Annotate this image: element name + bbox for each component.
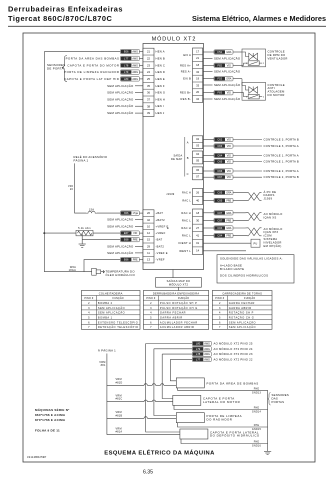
svg-text:HEN A: HEN A [156, 50, 165, 54]
diagram frame [23, 33, 315, 462]
svg-text:ANTI: ANTI [268, 86, 275, 90]
svg-text:2: 2 [263, 97, 264, 99]
svg-text:DERRUBADEIRA ENFEIXADEIRA: DERRUBADEIRA ENFEIXADEIRA [153, 291, 199, 295]
svg-text:PINO #: PINO # [84, 297, 94, 300]
svg-text:ESQUEMA ELÉTRICO DA MÁQUINA: ESQUEMA ELÉTRICO DA MÁQUINA [104, 448, 215, 456]
svg-text:42: 42 [147, 218, 150, 222]
svg-text:VIO: VIO [227, 139, 231, 142]
wire label C64 VIO C64 VIO [214, 153, 233, 157]
wire pair out L [260, 235, 262, 237]
table COLHEITADEIRA [81, 291, 140, 330]
svg-text:VIO: VIO [227, 145, 231, 148]
brace door sensors [62, 56, 67, 82]
svg-text:AWG: AWG [132, 64, 138, 67]
svg-text:RES A-: RES A- [181, 70, 191, 74]
svg-text:L78: L78 [196, 352, 201, 356]
wire label C63 VIO C63 VIO [214, 144, 233, 148]
wire signal row L79 [154, 348, 192, 350]
svg-text:2: 2 [263, 63, 264, 65]
svg-text:C05: C05 [217, 199, 222, 203]
svg-text:SEM APLICAÇÃO: SEM APLICAÇÃO [214, 82, 241, 87]
svg-text:BOMBA 2: BOMBA 2 [98, 301, 113, 305]
svg-text:-VREF: -VREF [156, 258, 165, 262]
wire label C04 GRA C04 GRA [214, 226, 233, 230]
svg-text:SEM APLICAÇÃO: SEM APLICAÇÃO [214, 55, 241, 60]
svg-text:5.1k ohm: 5.1k ohm [78, 226, 91, 230]
svg-text:L80: L80 [124, 77, 129, 81]
wire stub [135, 245, 143, 247]
wire signal to switch 3 [154, 349, 176, 416]
wire IDENT H [203, 242, 251, 244]
svg-text:-BAT2: -BAT2 [156, 244, 165, 248]
wire CAN H to pair [233, 227, 249, 229]
svg-text:PU: PU [253, 241, 257, 245]
wire CAN L to pair [233, 200, 249, 202]
valve solenoid symbol 1 [242, 52, 258, 60]
svg-text:VIO: VIO [227, 176, 231, 179]
svg-text:07: 07 [196, 175, 199, 179]
wire label C07 PRE C07 PRE [214, 218, 233, 222]
svg-text:11: 11 [147, 251, 150, 255]
svg-text:ACUMULADOR ABRIR: ACUMULADOR ABRIR [160, 325, 194, 329]
wire label C07 GRA C07 GRA [214, 211, 233, 215]
svg-text:L78: L78 [124, 63, 129, 67]
ground [264, 451, 271, 454]
svg-text:06: 06 [196, 168, 199, 172]
svg-text:DO DEPÓSITO HIDRÁULICO: DO DEPÓSITO HIDRÁULICO [210, 433, 260, 438]
svg-text:CONTROLE: CONTROLE [268, 83, 285, 87]
valve box 2 [242, 82, 266, 100]
svg-text:PORTA DE LIMPEZA RADIADOR: PORTA DE LIMPEZA RADIADOR [64, 70, 119, 74]
svg-text:-BAT: -BAT [156, 238, 163, 242]
wire stub [203, 84, 213, 86]
wire to pin 15 [139, 239, 143, 241]
svg-text:05: 05 [196, 159, 199, 163]
svg-text:B: B [187, 156, 189, 160]
svg-text:RES B+: RES B+ [180, 91, 191, 95]
svg-text:CONTROLE 2, PORTA B: CONTROLE 2, PORTA B [264, 175, 300, 179]
svg-text:EI6 A: EI6 A [183, 53, 191, 57]
svg-text:FHE: FHE [254, 441, 260, 444]
svg-text:SISTEMA: SISTEMA [264, 237, 278, 241]
wire MAP out [203, 176, 214, 178]
connector CAN1 pins 26 40 [193, 189, 203, 205]
svg-text:RAC L: RAC L [182, 218, 191, 222]
wire stub [135, 252, 143, 254]
wire [107, 434, 180, 436]
wire module to saidas map box [172, 270, 174, 278]
svg-text:C65: C65 [217, 160, 222, 164]
svg-text:CONTROLE 1, PORTA A: CONTROLE 1, PORTA A [264, 154, 299, 158]
wire stub [135, 85, 143, 87]
svg-text:13: 13 [147, 258, 150, 262]
switch S4 CAPOTA E PORTA LATERAL DO DEPOSITO [180, 429, 208, 439]
svg-text:GARRA FECHAR: GARRA FECHAR [229, 301, 255, 305]
svg-text:RAC H: RAC H [181, 211, 191, 215]
wire label C66 VIO C66 VIO [214, 169, 233, 173]
wire label C62 VIO C62 VIO [214, 137, 233, 141]
svg-text:HEN F: HEN F [156, 84, 165, 88]
svg-text:SEM APLICAÇÃO: SEM APLICAÇÃO [107, 223, 134, 228]
wire label F83 VIO F83 VIO [214, 91, 233, 95]
svg-text:12: 12 [147, 231, 150, 235]
svg-text:C04: C04 [217, 234, 222, 238]
svg-text:PRE: PRE [133, 239, 138, 242]
svg-text:34: 34 [196, 97, 199, 101]
svg-text:17: 17 [196, 49, 199, 53]
svg-text:SOLENOIDE DAS VÁLVULAS LIGAD: SOLENOIDE DAS VÁLVULAS LIGADOS A: [220, 257, 283, 261]
svg-text:L80: L80 [196, 342, 201, 346]
wire to pin 12 [139, 232, 143, 234]
svg-text:CONTROLE 3, PORTA A: CONTROLE 3, PORTA A [264, 144, 299, 148]
wire [147, 384, 152, 386]
svg-text:26: 26 [147, 211, 150, 215]
svg-text:22: 22 [147, 56, 150, 60]
svg-text:Sistema Elétrico, Alarmes e Me: Sistema Elétrico, Alarmes e Medidores [192, 14, 326, 23]
svg-text:VIO: VIO [227, 161, 231, 164]
wire stub [203, 57, 213, 59]
svg-text:PRE: PRE [226, 219, 231, 222]
svg-text:03: 03 [196, 143, 199, 147]
svg-text:VENTILADOR: VENTILADOR [268, 56, 288, 60]
svg-text:L77: L77 [196, 357, 201, 361]
svg-text:HEN E: HEN E [156, 77, 165, 81]
wire [147, 417, 176, 419]
wire CAN H [203, 192, 214, 194]
svg-text:PINO #: PINO # [146, 297, 156, 300]
svg-text:HEN H: HEN H [156, 97, 166, 101]
wire signal row L78 [162, 353, 192, 355]
svg-text:J1939: J1939 [166, 192, 175, 196]
svg-text:20: 20 [196, 90, 199, 94]
svg-text:HEN C: HEN C [156, 63, 166, 67]
wire pair out H [260, 192, 262, 194]
svg-text:C07: C07 [217, 211, 222, 215]
svg-text:40: 40 [196, 199, 199, 203]
wire label C05 PRE C05 PRE [214, 198, 233, 202]
svg-text:GRA: GRA [226, 51, 232, 54]
MAP bracket line [184, 137, 186, 177]
svg-text:GARRA FECHAR: GARRA FECHAR [160, 311, 186, 315]
svg-text:SEM APLICAÇÃO: SEM APLICAÇÃO [214, 69, 241, 74]
wire label C05 GRA C05 GRA [214, 190, 233, 194]
svg-text:24: 24 [147, 70, 150, 74]
svg-text:#81B: #81B [116, 414, 123, 417]
svg-text:L79: L79 [124, 70, 129, 74]
wire to resistor 2 [233, 92, 242, 94]
wire label C04 PRE C04 PRE [214, 233, 233, 237]
wire CAN H to pair [233, 212, 249, 214]
svg-text:SEM APLICAÇÃO: SEM APLICAÇÃO [107, 110, 134, 115]
svg-text:(COM: (COM [264, 234, 273, 238]
table DERRUBADEIRA ENFEIXADEIRA [143, 291, 208, 330]
svg-text:41: 41 [196, 234, 199, 238]
svg-text:DO MOTOR: DO MOTOR [268, 93, 285, 97]
connector CAN2 pins [193, 209, 203, 254]
svg-text:AWG: AWG [204, 358, 210, 361]
svg-text:870*1766 E ACIMA: 870*1766 E ACIMA [35, 418, 66, 422]
svg-text:HEN G: HEN G [156, 91, 166, 95]
svg-text:10: 10 [147, 224, 150, 228]
wire [164, 384, 177, 386]
svg-text:FUNÇÃO: FUNÇÃO [244, 297, 255, 300]
wire to valve 1 [233, 51, 242, 53]
label SENSORES DAS PORTAS [268, 393, 271, 406]
twisted pair [249, 228, 260, 236]
connector P3 pins 17-34 [193, 48, 203, 102]
svg-text:RAC L: RAC L [182, 200, 191, 203]
svg-text:FHE: FHE [254, 424, 260, 427]
wire E06 to pin 21 [139, 51, 143, 53]
sensor temperatura do oleo hidraulico [92, 268, 105, 275]
twisted pair [249, 213, 260, 221]
svg-text:39: 39 [147, 111, 150, 115]
svg-text:C: C [187, 172, 189, 176]
svg-text:32: 32 [196, 70, 199, 74]
svg-text:#81: #81 [101, 364, 106, 367]
wire pair out H [260, 212, 262, 214]
svg-text:GARRA ABRIR: GARRA ABRIR [229, 306, 252, 310]
wire label L79 AWG L79 AWG [192, 347, 211, 351]
wire label L78 AWG L78 AWG [192, 352, 211, 356]
connector P2 power pins [143, 210, 154, 263]
svg-text:SEM APLICAÇÃO: SEM APLICAÇÃO [107, 83, 134, 88]
svg-text:DADOS: DADOS [264, 193, 275, 197]
svg-text:ATOLAGEM: ATOLAGEM [268, 90, 285, 94]
wire stub [203, 71, 213, 73]
wire stub [135, 105, 143, 107]
svg-text:AWG: AWG [204, 348, 210, 351]
svg-text:1: 1 [246, 63, 247, 65]
svg-text:HEN I: HEN I [156, 104, 164, 108]
svg-text:27: 27 [196, 226, 199, 230]
svg-text:HEN B: HEN B [156, 56, 165, 60]
svg-text:C64: C64 [217, 154, 222, 158]
connector MAP group A pins 02-03 [193, 136, 203, 149]
wire label L78 AWG L78 AWG [120, 63, 139, 67]
wire to pin 26 [139, 212, 143, 214]
svg-text:SAÍDA: SAÍDA [173, 154, 182, 158]
svg-text:SEM APLICAÇÃO: SEM APLICAÇÃO [107, 250, 134, 255]
wire to load [233, 161, 262, 163]
svg-text:E67: E67 [124, 231, 129, 235]
valve 2 entry wire [241, 79, 243, 86]
svg-text:VIO: VIO [133, 232, 137, 235]
wire to load [233, 170, 262, 172]
svg-text:37: 37 [147, 97, 150, 101]
wire module out [203, 64, 214, 66]
twisted pair [249, 193, 260, 201]
bottom supply bus vertical [106, 354, 108, 435]
wire ground to label [82, 239, 120, 241]
switch S1 PORTA DA AREA DE BOMBAS [176, 378, 204, 388]
svg-text:HEN J: HEN J [156, 111, 165, 115]
wire to pin 13 [139, 259, 143, 261]
svg-text:F83: F83 [218, 91, 223, 95]
wire saidas map box to table [178, 287, 180, 291]
wire signal to switch 4 [146, 344, 180, 433]
wire pair out L [260, 200, 262, 202]
svg-text:21: 21 [147, 50, 150, 54]
svg-text:26: 26 [196, 191, 199, 195]
svg-text:C67: C67 [217, 175, 222, 179]
note box SAIDAS MAP DO MODULO XT2 [156, 278, 202, 288]
svg-text:DE MAP: DE MAP [171, 157, 182, 161]
svg-text:SEM APLICAÇÃO: SEM APLICAÇÃO [107, 243, 134, 248]
valve box 1 [242, 49, 266, 67]
wire L79 to module [139, 71, 143, 73]
svg-text:#81D: #81D [116, 381, 123, 384]
wire signal row L80 [146, 343, 193, 345]
svg-text:FOLHA 9 DE 11: FOLHA 9 DE 11 [35, 428, 60, 432]
svg-text:MÁQUINAS SÉRIE Nº: MÁQUINAS SÉRIE Nº [35, 407, 70, 412]
svg-text:14: 14 [196, 249, 199, 253]
svg-text:1: 1 [246, 97, 247, 99]
wire pair out H [260, 227, 262, 229]
svg-text:AWG: AWG [204, 343, 210, 346]
svg-text:BOMBA 1: BOMBA 1 [98, 315, 113, 319]
svg-text:GND14: GND14 [252, 411, 262, 414]
svg-text:#81C: #81C [116, 398, 123, 401]
wire [107, 401, 144, 403]
svg-text:SEM APLICAÇÃO: SEM APLICAÇÃO [107, 96, 134, 101]
svg-text:38: 38 [147, 104, 150, 108]
module XT2 outline [143, 44, 204, 270]
svg-text:PRE: PRE [226, 235, 231, 238]
svg-text:IQAN XP3: IQAN XP3 [264, 230, 279, 234]
wire label F82 VIO F82 VIO [214, 63, 233, 67]
connector MAP group B pins 04-05 [193, 151, 203, 164]
svg-text:PÁGINA 1: PÁGINA 1 [74, 159, 89, 163]
svg-text:SEM APLICAÇÃO: SEM APLICAÇÃO [107, 217, 134, 222]
svg-text:6.35: 6.35 [143, 470, 153, 476]
svg-text:ÓLEO HIDRÁULICO: ÓLEO HIDRÁULICO [106, 272, 136, 277]
wire CAN L [203, 200, 214, 202]
wire stub [135, 225, 143, 227]
svg-text:IQAN XS: IQAN XS [264, 216, 277, 220]
svg-text:GRA: GRA [226, 227, 232, 230]
wire label L77 AWG L77 AWG [120, 56, 139, 60]
svg-text:F82: F82 [218, 63, 223, 67]
wire switch ground to FHE GND13 [178, 388, 268, 390]
wire to ground [81, 233, 83, 244]
connector P1 pins 21-39 [143, 48, 154, 116]
note box solenoides [217, 255, 294, 283]
junction dot [43, 232, 45, 234]
svg-text:À PÁGINA 1: À PÁGINA 1 [98, 349, 116, 353]
svg-text:C07: C07 [217, 218, 222, 222]
svg-text:F53: F53 [218, 77, 223, 81]
wire label F52 GRA F52 GRA [214, 50, 233, 54]
svg-text:860*1766 E ACIMA: 860*1766 E ACIMA [35, 413, 66, 417]
wire label L77 AWG L77 AWG [192, 357, 211, 361]
valve solenoid symbol 2 [242, 86, 258, 94]
wire [156, 384, 161, 386]
wire to load [233, 145, 262, 147]
wire label to sensor [84, 260, 120, 272]
wire L78 to module [139, 64, 143, 66]
connector MAP group C pins 06-07 [193, 167, 203, 180]
wire signal row L77 [170, 358, 192, 360]
wire label L79 AWG L79 AWG [120, 70, 139, 74]
svg-text:PORTA DA ÁREA DE BOMBAS: PORTA DA ÁREA DE BOMBAS [207, 382, 259, 386]
svg-text:35: 35 [147, 84, 150, 88]
wire CAN L to pair [233, 235, 249, 237]
wire L77 to module [139, 57, 143, 59]
svg-text:HEN D: HEN D [156, 70, 166, 74]
svg-text:PORTA DA AREA DAS BOMBAS: PORTA DA AREA DAS BOMBAS [66, 56, 120, 60]
svg-text:-VREF E: -VREF E [156, 251, 168, 255]
svg-text:C05: C05 [217, 191, 222, 195]
wire MAP out [203, 155, 214, 157]
header rule [8, 25, 326, 27]
wire to resistor 1 [233, 64, 242, 66]
svg-text:32112BR259P: 32112BR259P [27, 455, 46, 459]
wire L80 to module [139, 78, 143, 80]
svg-text:E: E [167, 226, 169, 230]
svg-text:B=LADO HASTE: B=LADO HASTE [220, 267, 244, 271]
wire fuse to label [97, 212, 120, 214]
wire stub [135, 98, 143, 100]
wire MAP out [203, 170, 214, 172]
svg-text:L77: L77 [124, 56, 129, 60]
svg-text:RAC H: RAC H [181, 226, 191, 230]
svg-text:GND15: GND15 [252, 428, 262, 431]
wire CAN H [203, 212, 214, 214]
svg-text:A: A [187, 140, 189, 144]
wire label E68 PRE E68 PRE [120, 237, 139, 241]
svg-text:GRA: GRA [226, 78, 232, 81]
svg-text:GRA: GRA [226, 212, 232, 215]
wire [107, 384, 144, 386]
wire label C65 VIO C65 VIO [214, 159, 233, 163]
svg-text:AWG: AWG [132, 71, 138, 74]
wire label E66 PRE E66 PRE [120, 257, 139, 261]
svg-text:21: 21 [196, 56, 199, 60]
wire bus to sensor [44, 271, 91, 273]
svg-text:PRE: PRE [133, 259, 138, 262]
wire switch ground to FHE GND16 [181, 439, 268, 444]
svg-text:C66: C66 [217, 169, 222, 173]
svg-text:VIO: VIO [227, 92, 231, 95]
table CARREGADEIRA DE TORAS [212, 291, 272, 330]
svg-text:C62: C62 [217, 138, 222, 142]
svg-text:FHE: FHE [254, 387, 260, 390]
svg-text:18: 18 [196, 63, 199, 67]
svg-text:30: 30 [196, 218, 199, 222]
svg-text:DE PORTA: DE PORTA [47, 66, 64, 70]
svg-text:02: 02 [196, 137, 199, 141]
svg-text:01: 01 [196, 241, 199, 245]
fuse 15A [86, 211, 97, 213]
svg-text:+VREF: +VREF [156, 231, 166, 235]
wire CAN L [203, 219, 214, 221]
svg-text:RAC L: RAC L [182, 234, 191, 238]
svg-text:L79: L79 [196, 347, 201, 351]
svg-text:GND13: GND13 [252, 392, 262, 395]
wire to load [233, 139, 262, 141]
wire signal to switch 2 [162, 354, 173, 398]
switch S2 CAPOTA E PORTA LATERAL DO MOTOR [173, 395, 201, 405]
wire CAN H to pair [233, 192, 249, 194]
svg-text:SAÍDAS MAP DO: SAÍDAS MAP DO [167, 279, 191, 283]
wire [156, 401, 173, 403]
wire to load [233, 155, 262, 157]
wire switch ground to FHE GND14 [174, 405, 268, 409]
feedback resistor symbol 2 [242, 93, 262, 99]
switch S3 PORTA DE LIMPEZA DO RADIADOR [176, 413, 204, 423]
svg-text:SEM APLICAÇÃO: SEM APLICAÇÃO [107, 90, 134, 95]
